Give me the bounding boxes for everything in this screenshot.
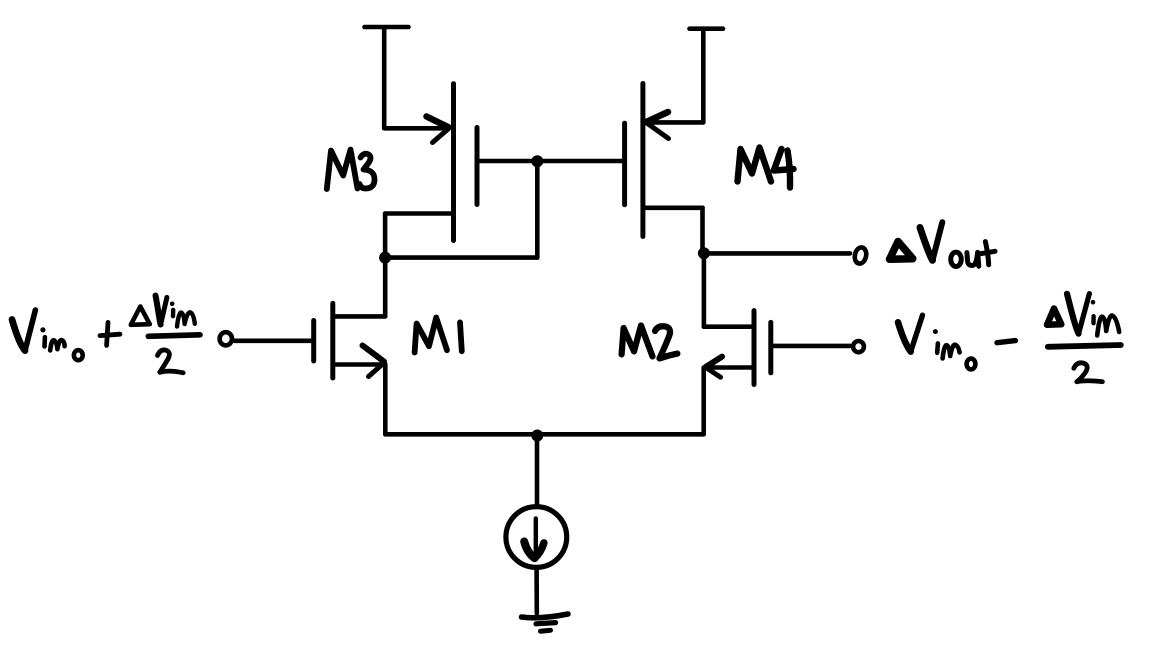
- transistor M4 channel line: [640, 84, 645, 237]
- node output dot: [698, 247, 710, 259]
- wire M2 drain (vertical from output node): [702, 253, 707, 326]
- transistor M3 gate bar: [475, 128, 480, 205]
- output terminal circle: [853, 246, 867, 264]
- source arrow M3 (points right into channel): [427, 117, 449, 143]
- label Vin0 + dVin/2 (left input): [12, 296, 200, 373]
- wire M2 source (vertical): [701, 368, 706, 435]
- source arrow M1 (points right): [363, 346, 385, 377]
- label M3: [327, 150, 375, 190]
- label Vin0 - dVin/2 (right input): [898, 294, 1121, 382]
- wire tail bus: [385, 432, 703, 437]
- wire M1 drain (vertical from mirror node): [383, 258, 388, 317]
- wire M1 gate: [235, 338, 314, 343]
- current source I1 circle: [506, 507, 567, 568]
- wire M1 source (vertical): [383, 364, 388, 434]
- wire tail to current source: [535, 436, 540, 507]
- wire M4 source from VDD: [647, 120, 703, 125]
- label dVout: [890, 222, 996, 266]
- wire gate bus M3-M4: [477, 159, 625, 164]
- transistor M3 channel line: [451, 84, 456, 241]
- transistor M1 gate bar: [311, 321, 316, 362]
- current source arrow: [524, 519, 544, 559]
- label M1: [415, 318, 462, 353]
- node tail dot: [531, 430, 543, 442]
- wire gate-to-drain tie (vertical): [535, 161, 540, 257]
- node M3 drain dot: [379, 252, 391, 264]
- source arrow M4 (points left into channel): [647, 112, 669, 139]
- wire output: [704, 251, 850, 256]
- transistor M4 gate bar: [622, 123, 627, 205]
- input terminal circle (left): [220, 332, 232, 345]
- wire M1 source stub: [333, 362, 383, 367]
- wire M2 source stub: [706, 365, 754, 370]
- wire drain node to tie: [385, 255, 537, 260]
- ground symbol: [522, 614, 569, 631]
- wire current source to ground: [534, 568, 539, 614]
- wire M3 source from VDD: [384, 126, 448, 131]
- source arrow M2 (points left): [706, 357, 722, 378]
- wire M2 drain stub: [704, 324, 754, 329]
- transistor M1 channel line: [330, 303, 335, 378]
- label M4: [738, 148, 794, 188]
- wire M4 drain stub: [643, 208, 703, 252]
- label M2: [622, 326, 678, 359]
- node gate junction dot: [531, 155, 543, 167]
- VDD rail symbol (left, M3 source): [365, 27, 409, 128]
- wire M1 drain stub: [333, 314, 385, 319]
- wire M3 drain stub: [385, 214, 454, 258]
- transistor M2 channel line: [752, 311, 757, 385]
- wire M2 gate: [771, 344, 850, 349]
- transistor M2 gate bar: [768, 322, 773, 372]
- VDD rail symbol (right, M4 source): [690, 29, 724, 123]
- input terminal circle (right): [853, 341, 864, 352]
